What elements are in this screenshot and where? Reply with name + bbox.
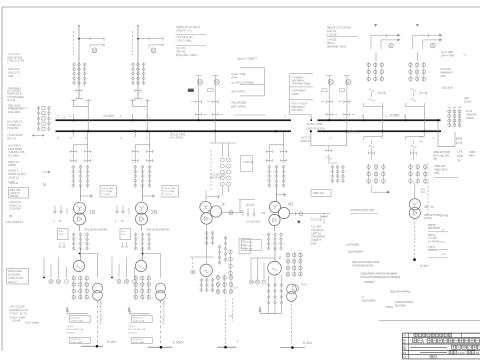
svg-text:SFZ9-31500: SFZ9-31500 (8, 270, 23, 273)
grounding transformer tap TN2 (143, 253, 161, 255)
branch PT lines 1 (79, 38, 104, 40)
svg-text:6.76kV: 6.76kV (173, 341, 185, 345)
title row1 institute name (414, 334, 417, 337)
svg-text:JYN 161/226: JYN 161/226 (9, 305, 25, 309)
grounding transformer TN4 (287, 284, 297, 294)
svg-text:ЧСМЧБМД МСНМ: ЧСМЧБМД МСНМ (352, 264, 373, 267)
svg-text:YJV22-3×70 L=160m: YJV22-3×70 L=160m (162, 300, 166, 325)
svg-text:кАБМЧ: кАБМЧ (466, 117, 474, 120)
arresters left of 1B (54, 206, 56, 212)
riser through buses 2 (146, 107, 148, 132)
3G feed line (206, 225, 208, 264)
svg-text:2B: 2B (151, 210, 158, 216)
PT circle-x 2 (151, 48, 156, 53)
3B down dashes (414, 219, 416, 259)
svg-text:ЧВДСтВСЗ: ЧВДСтВСЗ (434, 167, 448, 171)
station circle string (230, 250, 232, 276)
svg-text:kvar 2Ч: kvar 2Ч (327, 29, 336, 33)
svg-text:ГЛ5У: ГЛ5У (241, 241, 246, 243)
svg-text:JYN2/YY × 0: JYN2/YY × 0 (176, 29, 192, 33)
terminal 4 (280, 347, 305, 349)
svg-text:JYL 10: JYL 10 (66, 326, 74, 328)
lower bracket feeder 1B (73, 144, 88, 146)
svg-text:СМ: СМ (403, 349, 407, 351)
svg-text:1ЬУию: 1ЬУию (464, 100, 472, 103)
feeder line to transformer 1B (79, 186, 81, 201)
lower bracket R2 (406, 136, 425, 138)
bus tie U link (310, 132, 312, 146)
line down to terminal TN1 (97, 300, 99, 344)
outgoing lines R1 (371, 34, 400, 36)
svg-text:1B: 1B (89, 210, 96, 216)
svg-text:Л3: Л3 (262, 211, 266, 215)
feeder drop to 4B (275, 130, 277, 132)
left margin lower box (7, 269, 29, 285)
svg-text:JLS-10 1000: JLS-10 1000 (164, 188, 177, 190)
below transformer line 1B (79, 226, 81, 232)
middle boxes MB3 (289, 74, 291, 115)
svg-text:с45МД: с45МД (385, 306, 393, 309)
TN4 dashed line down (291, 301, 293, 348)
svg-text:2×YJV22): 2×YJV22) (170, 136, 183, 140)
section II station feeder (328, 146, 330, 152)
station lower grid (216, 276, 219, 279)
side symbols 2B (111, 257, 113, 277)
transformer 3B (414, 183, 416, 199)
svg-text:10.5kV: 10.5kV (389, 114, 400, 118)
box label left of G4 (242, 240, 262, 251)
gather line 1B (67, 313, 88, 315)
tap symbol 2B (142, 195, 155, 197)
svg-text:ЦЛТ9А: ЦЛТ9А (424, 217, 432, 220)
svg-text:YJV22-3×70 L=160m: YJV22-3×70 L=160m (99, 300, 103, 325)
svg-text:3×25М: 3×25М (241, 247, 248, 250)
upper bracket 2 (133, 106, 148, 108)
svg-text:[ЭЧУМ]: [ЭЧУМ] (440, 215, 448, 218)
left small column notes (232, 298, 234, 322)
outgoing box label 1B (69, 316, 90, 322)
svg-text:(JN)11-73: (JN)11-73 (8, 71, 20, 75)
transformer 1B (74, 202, 86, 214)
svg-text:ЛУД-10(2): ЛУД-10(2) (346, 131, 358, 134)
svg-text:3Л: 3Л (431, 205, 435, 209)
svg-text:лы. (ЛЛ)-1 (ЛЛ)ЧМд: лы. (ЛЛ)-1 (ЛЛ)ЧМд (231, 82, 254, 85)
svg-text:JYN2 650: JYN2 650 (7, 126, 19, 130)
riser R2 (423, 107, 425, 132)
below transformer line 2B (141, 226, 143, 232)
dashes R1 (370, 35, 372, 49)
svg-text:3×0.4×0.75×2.5A: 3×0.4×0.75×2.5A (128, 328, 145, 331)
svg-text:.3×95 2.0kA: .3×95 2.0kA (133, 320, 145, 323)
title block separator line (379, 320, 480, 322)
breakers R1 (369, 89, 375, 91)
frame border (2, 6, 480, 8)
svg-text:JYN2 QSN2-10: JYN2 QSN2-10 (5, 220, 23, 224)
middle boxes MB1 MB2 (240, 67, 265, 69)
PT circle c (328, 79, 333, 84)
PT circle b (214, 79, 219, 84)
outgoing box2 2B (131, 338, 152, 344)
svg-text:ЧЛ)СЛАСМД: ЧЛ)СЛАСМД (231, 102, 246, 105)
arresters left of 4B (247, 208, 249, 214)
svg-text:5-Y YJLPA): 5-Y YJLPA) (164, 190, 175, 193)
legend marks (42, 171, 48, 173)
transformer 2B (136, 202, 148, 214)
G4 gather (260, 313, 281, 315)
svg-text:110/10.5kV: 110/10.5kV (8, 274, 21, 277)
line down to terminal TN2 (160, 300, 162, 344)
svg-text:10kV 225: 10kV 225 (8, 67, 20, 71)
bracket above bus R2 (406, 106, 425, 108)
svg-text:ТУМ-Б: ТУМ-Б (241, 244, 248, 246)
box right of 4B (311, 190, 331, 197)
svg-text:.3×95 2.0kA: .3×95 2.0kA (71, 320, 83, 323)
breaker ticks below 2B (132, 151, 138, 153)
svg-text:СЗВС-Ве: СЗВС-Ве (434, 164, 446, 168)
ticks b (212, 101, 218, 103)
breakers R2 (410, 89, 416, 91)
ticks a (196, 101, 202, 103)
disconnector strings 2 (132, 63, 135, 66)
svg-text:Udk=17 ²: Udk=17 ² (8, 281, 18, 284)
svg-text:1:100: 1:100 (458, 351, 465, 355)
4B tertiary line right (290, 213, 330, 215)
tap symbol 1B (80, 195, 93, 197)
legend symbol columns (37, 106, 40, 109)
PT feeder a (198, 76, 200, 120)
PT circle-x 1 (92, 48, 97, 53)
svg-text:ШБНБЧБУ ЛБЧУ: ШБНБЧБУ ЛБЧУ (327, 46, 347, 49)
left margin notes column (8, 53, 20, 55)
arrow head 2 (137, 25, 139, 28)
breaker ticks 2 (135, 90, 141, 92)
transformer 4B (3-winding) (269, 201, 280, 212)
fuse grid below R1 (367, 165, 371, 169)
tap tick 4B (276, 194, 286, 196)
svg-text:ЧМБЧМЧY: ЧМБЧМЧY (440, 71, 453, 75)
terminal 1 (81, 345, 103, 347)
station2 dashed drop (225, 300, 227, 347)
feeder line to transformer 2B (141, 186, 143, 201)
svg-text:1Б(2Б) Б: 1Б(2Б) Б (442, 86, 453, 90)
3B terminal (413, 258, 416, 261)
cubicle tag b (208, 89, 213, 92)
svg-text:3А: 3А (420, 141, 423, 144)
svg-text:JLS-35W: JLS-35W (8, 153, 19, 157)
dashed line right of R2 (427, 163, 429, 214)
svg-text:Ja-7YQ9B: Ja-7YQ9B (441, 50, 453, 54)
svg-text:YNd11 10.5%: YNd11 10.5% (8, 277, 24, 280)
svg-text:ТИЕС ЦЛ.: ТИЕС ЦЛ. (313, 192, 325, 195)
PT feeder b (214, 76, 216, 131)
svg-text:БУМ: БУМ (311, 243, 316, 246)
svg-text:2JN-JY 4НЦ: 2JN-JY 4НЦ (177, 38, 191, 42)
switch cubicle box feeder2 (162, 186, 179, 198)
svg-text:ВСМЗБМ: ВСМЗБМ (395, 304, 406, 307)
bus W1 10.5kV section I upper (56, 119, 292, 121)
svg-text:10.5kV: 10.5kV (103, 114, 115, 118)
legend arrow (34, 135, 42, 137)
strings below transformer 2B (134, 233, 137, 236)
svg-text:3 2 3: 3 2 3 (232, 286, 238, 290)
outgoing feeder R2 top mark (416, 24, 419, 27)
lower bracket R1 (364, 136, 383, 138)
strings below transformer 1B (72, 233, 75, 236)
svg-text:C2Б: C2Б (8, 74, 13, 78)
svg-text:JLS×Б: JLS×Б (12, 319, 20, 323)
svg-text:SC10-200: SC10-200 (9, 207, 21, 211)
grounding transformer TN1 (93, 283, 103, 293)
svg-text:YJV22-10: YJV22-10 (71, 339, 81, 341)
svg-text:МсАСМдЕМ: МсАСМдЕМ (362, 299, 375, 302)
svg-text:JYN2-10 JYN6: JYN2-10 JYN6 (7, 59, 25, 63)
svg-text:BJ1OC2H: BJ1OC2H (210, 176, 222, 180)
grounding transformer tap TN1 (80, 253, 98, 255)
svg-text:JLS1: JLS1 (121, 231, 127, 233)
dashed stub 2 (132, 31, 134, 55)
svg-text:W: W (59, 219, 62, 223)
PT feeder c (328, 76, 330, 120)
station strings (218, 245, 221, 248)
PT x R1 (389, 43, 394, 48)
right tiny dashes (441, 229, 445, 231)
svg-text:+1: +1 (404, 334, 408, 338)
terminal 2 (148, 346, 172, 348)
PT circle a (197, 79, 202, 84)
generator 1B (73, 260, 84, 271)
outgoing feeder R1 top mark (374, 24, 377, 27)
G4 left branch (251, 257, 275, 259)
svg-text:С2Б: С2Б (457, 154, 463, 158)
svg-text:3А: 3А (457, 159, 461, 163)
bracket above bus R1 (364, 106, 383, 108)
svg-text:JQJN2(11)-N-17: JQJN2(11)-N-17 (9, 308, 29, 312)
cubicle tag c (322, 89, 327, 92)
bus W3 10.5kV section II upper (318, 119, 441, 121)
junction dots 2 (132, 119, 134, 121)
arresters left of 2B (116, 206, 118, 212)
switch cubicle box feeder1 (100, 186, 117, 198)
station secondary line (222, 212, 243, 214)
svg-text:МДСНМ МАМАД: МДСНМ МАМАД (390, 290, 410, 294)
svg-text:380/220: 380/220 (10, 195, 19, 198)
svg-text:JLS-10 1000: JLS-10 1000 (102, 188, 115, 190)
G4 lower strings (268, 275, 270, 314)
svg-text:JYL 10: JYL 10 (128, 326, 136, 328)
fuse grid below generator 1B (72, 277, 75, 280)
svg-text:JLS-10: JLS-10 (7, 98, 16, 102)
lower bracket feeder 2B (135, 144, 150, 146)
outgoing box2 1B (69, 338, 90, 344)
bus W2 10.5kV section I lower (56, 130, 292, 132)
svg-text:(С14 элем): (С14 элем) (25, 321, 39, 325)
riser R1 (382, 107, 384, 132)
svg-text:YJV22-10: YJV22-10 (133, 318, 143, 320)
svg-text:3ЦЛУНДМАЧ: 3ЦЛУНДМАЧ (348, 251, 364, 254)
svg-text:200/5A: 200/5A (8, 163, 16, 167)
svg-text:29H-Y БМУ: 29H-Y БМУ (441, 53, 455, 57)
station feeder drop (214, 132, 216, 143)
svg-text:6.3: 6.3 (229, 314, 233, 318)
ticks c (326, 101, 332, 103)
title block frame (403, 332, 480, 334)
svg-text:4Г: 4Г (278, 256, 282, 260)
fuse grid below generator 2B (134, 277, 137, 280)
svg-text:ЛЛУ-ЛЛЧУ: ЛЛУ-ЛЛЧУ (292, 109, 304, 112)
title row3 drawing name (452, 345, 456, 349)
svg-text:а ЦЛУНМД: а ЦЛУНМД (346, 244, 359, 247)
below symbols R2 (410, 145, 416, 147)
disconnector strings below 1B (72, 165, 75, 168)
generator 3G (200, 264, 212, 276)
arrow out R1 (371, 185, 373, 192)
svg-text:гКУБУМУУМД 6.3ЗБ: гКУБУМУУМД 6.3ЗБ (350, 209, 374, 212)
station fuse strings (221, 143, 223, 157)
3G arrows (205, 231, 208, 234)
svg-text:УУ-7ВОЧ12: УУ-7ВОЧ12 (428, 240, 441, 243)
dashes R2 (412, 35, 414, 49)
svg-text:1У8: 1У8 (457, 150, 463, 154)
svg-text:YJV22-10: YJV22-10 (71, 318, 81, 320)
svg-text:лЛЛЛ ЛЛЧЛ: лЛЛЛ ЛЛЧЛ (231, 91, 245, 94)
below 4B strings (274, 226, 276, 232)
capacitor strings (448, 109, 450, 128)
left margin box block (9, 188, 29, 199)
svg-text:ДЛУГ ЬЛ2ЧА: ДЛУГ ЬЛ2ЧА (231, 106, 246, 109)
svg-text:3×1: 3×1 (421, 191, 426, 194)
incomer line 2 (137, 25, 139, 99)
cap bank bracket (437, 121, 439, 147)
svg-text:JY7NJ+ JLY W: JY7NJ+ JLY W (9, 312, 27, 316)
branch PT lines 2 (138, 38, 163, 40)
svg-text:САМАЗ ВСММДМММАМЧБММДМ: САМАЗ ВСММДМММАМЧБММДМ (360, 276, 400, 279)
side symbols 1B (43, 257, 45, 277)
svg-text:ЛУ4Ч+3БЧ (ЧМД: ЛУ4Ч+3БЧ (ЧМД (292, 83, 311, 86)
cubicle tag d (339, 89, 344, 92)
svg-text:JYN2-10: JYN2-10 (8, 176, 20, 180)
svg-text:9ВР.ЛВЫВ: 9ВР.ЛВЫВ (428, 227, 440, 230)
svg-text:(ЧЛ)( ЦК ЛЬУ)ЧМУЛМ: (ЧЛ)( ЦК ЛЬУ)ЧМУЛМ (84, 230, 107, 232)
aux box left G2 (120, 229, 131, 240)
svg-text:3×0.4×0.75×2.5A: 3×0.4×0.75×2.5A (66, 328, 83, 331)
junction dots 1 (73, 119, 75, 121)
gather line 2B (129, 313, 150, 315)
svg-text:JLS1: JLS1 (59, 231, 65, 233)
svg-text:ДЛЗ/АУ3: ДЛЗ/АУ3 (301, 140, 311, 143)
upper bracket 1 (74, 106, 89, 108)
grounding transformer TN2 (156, 283, 166, 293)
svg-text:T-YJLLJ4: T-YJLLJ4 (164, 194, 174, 196)
arrow head 1 (78, 25, 80, 28)
outgoing box label 2B (131, 316, 152, 322)
dashed stub 1 (73, 31, 75, 55)
generator G4 (274, 248, 276, 261)
svg-text:W: W (121, 219, 124, 223)
generator 2B (135, 260, 146, 271)
svg-text:МЕгк: МЕгк (469, 154, 476, 157)
station box (239, 239, 251, 254)
svg-text:JJYQ-Б3: JJYQ-Б3 (440, 67, 451, 71)
svg-text:кВа: кВа (433, 158, 438, 161)
svg-text:YJV22-10: YJV22-10 (133, 339, 143, 341)
svg-text:3×95 2.0kA: 3×95 2.0kA (133, 341, 145, 344)
breaker ticks below 1B (70, 151, 76, 153)
svg-text:(ЧЛ)( ЦК ЛЬУ)ЧМУЛМ: (ЧЛ)( ЦК ЛЬУ)ЧМУЛМ (146, 230, 169, 232)
svg-text:10.5kV 2AM: 10.5kV 2AM (307, 122, 323, 126)
svg-text:1×YJV22×95: 1×YJV22×95 (246, 221, 260, 224)
cubicle tag a (188, 89, 194, 92)
title row3 dash (410, 347, 447, 349)
title row2 project name (413, 339, 417, 343)
fuse grid above R2 (409, 63, 412, 66)
svg-text:3B: 3B (424, 204, 429, 209)
svg-text:ЧАУЗЧ: ЧАУЗЧ (292, 93, 300, 96)
svg-text:5-Y YJLPA): 5-Y YJLPA) (102, 190, 113, 193)
svg-text:2БСта: 2БСта (327, 41, 335, 45)
aux box left G1 (58, 229, 69, 240)
svg-text:4B: 4B (288, 202, 294, 207)
svg-text:ТСС2 ЦЛ.: ТСС2 ЦЛ. (311, 218, 323, 222)
svg-text:1.2ОСФ: 1.2ОСФ (327, 32, 337, 36)
PT feeder d (346, 76, 348, 131)
disconnector strings below 2B (134, 165, 137, 168)
svg-text:(3×45)×2: (3×45)×2 (66, 331, 76, 334)
svg-text:(73.9. Д: (73.9. Д (428, 249, 437, 252)
svg-text:QJFYJLHJOA: QJFYJLHJOA (307, 126, 325, 130)
svg-text:TH24 QL.: TH24 QL. (243, 160, 255, 164)
svg-text:JLS 2Д+1 ЦА: JLS 2Д+1 ЦА (177, 35, 193, 39)
terminal 3 (217, 346, 236, 348)
riser through buses 1 (87, 107, 89, 132)
svg-text:3×95 2.0kA: 3×95 2.0kA (71, 341, 83, 344)
bus W4 10.5kV section II lower (318, 130, 442, 132)
outgoing lines R2 (413, 34, 442, 36)
incomer line 1 (78, 25, 80, 99)
PT circle d (346, 79, 351, 84)
ticks d (344, 101, 350, 103)
svg-text:3BQ42+СП САЛАБ: 3BQ42+СП САЛАБ (327, 26, 351, 30)
svg-text:ZR-YJV: ZR-YJV (7, 136, 16, 140)
svg-text:BQN JSN4, CWLY: BQN JSN4, CWLY (176, 53, 198, 57)
fuse grid below R2 (409, 165, 413, 169)
svg-text:1МАМБЗ: 1МАМБЗ (364, 281, 375, 284)
svg-text:6.3kV: 6.3kV (303, 341, 313, 345)
below symbols R1 (369, 145, 375, 147)
fuse grid above R1 (367, 63, 370, 66)
svg-text:Одно ЛУ УМДСТТ: Одно ЛУ УМДСТТ (237, 58, 258, 61)
svg-text:4.7Б: 4.7Б (8, 180, 14, 184)
svg-text:СЗФ: СЗФ (440, 74, 446, 78)
svg-text:6.3kV: 6.3kV (107, 340, 117, 344)
breaker ticks 1 (76, 90, 82, 92)
chevrons below 3G (200, 278, 203, 281)
svg-text:TH-1: TH-1 (301, 283, 307, 287)
svg-text:АС: АС (403, 342, 406, 345)
svg-text:(3×45)×2: (3×45)×2 (128, 331, 138, 334)
fuse grid right of G4 (286, 253, 289, 256)
svg-text:3B: 3B (9, 214, 12, 218)
svg-text:2Б: 2Б (221, 203, 225, 207)
svg-text:УАЧЧг: УАЧЧг (231, 77, 238, 80)
svg-text:ПУВ: ПУВ (434, 171, 440, 175)
disconnector strings 1 (73, 63, 76, 66)
svg-text:6.3kV: 6.3kV (420, 264, 429, 268)
svg-text:20kA 4000: 20kA 4000 (8, 110, 21, 114)
station transformer CH1 (3-winding) (205, 190, 207, 202)
PT x R2 (431, 43, 436, 48)
svg-text:T-YJLLJ4: T-YJLLJ4 (102, 194, 112, 196)
